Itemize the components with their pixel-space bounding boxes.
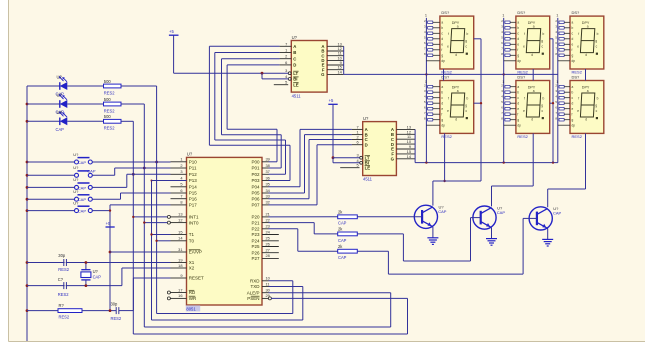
svg-text:13: 13: [178, 212, 182, 217]
svg-text:d: d: [531, 118, 533, 122]
svg-text:e: e: [441, 107, 443, 111]
svg-text:U?: U?: [93, 269, 99, 274]
svg-text:f: f: [572, 113, 573, 117]
svg-text:2: 2: [180, 163, 182, 168]
svg-text:d: d: [455, 53, 457, 57]
svg-text:d: d: [441, 37, 443, 41]
svg-text:a: a: [587, 89, 589, 93]
MCU pin 27 P26: [251, 248, 278, 256]
U2 input pin 1 B: [280, 48, 297, 56]
wire P21 to R 2k 2: [269, 223, 338, 234]
switch S3: [27, 177, 92, 190]
svg-text:U?: U?: [57, 110, 63, 115]
svg-text:f: f: [517, 113, 518, 117]
power +5 (4511 U3 LT/BI): [328, 98, 337, 158]
svg-text:U?: U?: [73, 200, 79, 205]
svg-text:LT: LT: [293, 71, 298, 76]
svg-text:P01: P01: [251, 166, 260, 171]
svg-text:a: a: [572, 21, 574, 25]
svg-text:RES2: RES2: [104, 126, 115, 131]
svg-text:b: b: [441, 91, 443, 95]
display DS6 labels: [572, 74, 583, 139]
svg-text:P06: P06: [251, 196, 260, 201]
wire P17 to +5 rail: [110, 204, 171, 206]
wire R4 to Q1 base: [357, 216, 422, 218]
svg-text:a: a: [517, 85, 519, 89]
U2 output pin 14 G: [321, 69, 344, 77]
MCU U1 8051 body: [187, 157, 263, 305]
svg-text:5: 5: [180, 182, 182, 187]
wire Q3 emitter: [547, 228, 549, 239]
svg-text:f: f: [441, 48, 442, 52]
svg-text:DS?: DS?: [441, 10, 450, 15]
MCU pin 33 P06: [251, 194, 269, 202]
svg-text:e: e: [577, 45, 579, 49]
svg-text:CAP: CAP: [78, 197, 87, 202]
MCU pin 22 P21: [251, 217, 269, 225]
resistor 2k R4: [338, 210, 358, 226]
switch S5: [27, 200, 92, 213]
svg-text:a: a: [572, 85, 574, 89]
svg-text:35: 35: [266, 182, 270, 187]
svg-text:P04: P04: [251, 185, 260, 190]
svg-text:b: b: [597, 32, 599, 36]
resistor 500 R1: [104, 79, 122, 96]
svg-text:DS?: DS?: [572, 74, 581, 79]
svg-text:11: 11: [266, 281, 270, 286]
MCU pin 3 P12: [171, 169, 198, 177]
svg-text:WR: WR: [189, 296, 197, 301]
wire U2 LT-BI tie: [174, 72, 289, 79]
svg-text:U?: U?: [73, 165, 79, 170]
svg-text:P23: P23: [251, 232, 260, 237]
svg-text:9: 9: [180, 273, 182, 278]
ground Q3: [542, 239, 553, 246]
wire P04 to U3 A: [269, 129, 352, 186]
MCU pin 18 X2: [171, 263, 195, 271]
svg-text:RES2: RES2: [104, 90, 115, 95]
svg-text:ALE/P: ALE/P: [247, 290, 260, 295]
display DS1 (7-segment): [440, 16, 474, 69]
LED D3: [27, 110, 104, 132]
wire P00 to U2 D: [227, 65, 280, 162]
svg-text:e: e: [517, 107, 519, 111]
MCU pin 5 P14: [171, 182, 198, 190]
svg-text:5: 5: [285, 80, 287, 85]
display DS1 labels: [441, 10, 452, 75]
svg-text:P21: P21: [251, 220, 260, 225]
svg-text:15: 15: [178, 229, 182, 234]
svg-text:CAP: CAP: [78, 185, 87, 190]
svg-text:P00: P00: [251, 160, 260, 165]
svg-text:P20: P20: [251, 215, 260, 220]
wire loop LED2/INT0 to ALE: [144, 104, 390, 327]
ground Q2: [486, 239, 497, 246]
MCU pin 25 P24: [251, 236, 278, 244]
wire X2 net: [27, 268, 171, 286]
wire reset net mid: [82, 309, 116, 312]
wire DS5 bottom common drop: [532, 133, 534, 186]
svg-text:8: 8: [180, 200, 182, 205]
svg-text:CAP: CAP: [497, 210, 506, 215]
MCU pin 38 P01: [251, 163, 269, 171]
svg-text:12: 12: [178, 217, 182, 222]
svg-text:g: g: [465, 103, 467, 107]
svg-text:b: b: [572, 26, 574, 30]
svg-text:f: f: [578, 32, 579, 36]
svg-text:3: 3: [285, 68, 287, 73]
svg-text:X1: X1: [189, 260, 195, 265]
wire R6 to Q3 base: [357, 218, 537, 274]
wire P02 to U2 B: [215, 53, 286, 175]
svg-text:RESET: RESET: [189, 276, 204, 281]
svg-text:dp: dp: [441, 59, 445, 63]
U3 output pin 11 C: [391, 134, 415, 142]
display DS3 (7-segment): [570, 16, 604, 69]
svg-text:g: g: [572, 54, 574, 58]
svg-text:CAP: CAP: [87, 169, 96, 174]
svg-text:19: 19: [178, 257, 182, 262]
MCU pin 21 P20: [251, 212, 269, 220]
svg-text:5: 5: [357, 163, 359, 168]
crystal Y1: [81, 261, 91, 287]
svg-text:P22: P22: [251, 227, 260, 232]
wire segment bus column 2: [503, 18, 505, 163]
svg-text:U?: U?: [57, 93, 63, 98]
ground Q1: [427, 238, 438, 245]
svg-text:e: e: [523, 109, 525, 113]
svg-text:BI: BI: [293, 77, 297, 82]
capacitor C2 labels: [58, 277, 69, 297]
wire DS2 common chain: [532, 69, 534, 81]
MCU pin 8 P17: [171, 200, 198, 208]
MCU pin 17 RD: [167, 287, 196, 295]
svg-text:DS?: DS?: [517, 74, 526, 79]
svg-text:b: b: [467, 97, 469, 101]
MCU pin 28 P27: [251, 253, 278, 261]
resistor pack RES2 for DS5: [501, 83, 516, 125]
svg-text:P24: P24: [251, 239, 260, 244]
svg-text:4511: 4511: [363, 177, 373, 182]
svg-text:g: g: [441, 54, 443, 58]
svg-text:7: 7: [180, 194, 182, 199]
svg-text:b: b: [517, 91, 519, 95]
resistor pack RES2 for DS3: [555, 19, 570, 61]
wire Q1 collector net: [433, 181, 481, 206]
svg-text:CAP: CAP: [438, 209, 447, 214]
resistor 500 R3: [104, 114, 122, 131]
U2 output pin 15 F: [322, 65, 344, 73]
U3 input pin 1 B: [352, 130, 368, 138]
wire segment rail row2: [415, 161, 558, 163]
svg-text:DS?: DS?: [572, 10, 581, 15]
svg-text:g: g: [517, 118, 519, 122]
svg-text:a: a: [457, 24, 459, 28]
svg-text:b: b: [543, 97, 545, 101]
svg-text:U?: U?: [73, 152, 79, 157]
capacitor C3 labels: [111, 302, 122, 321]
svg-text:g: g: [595, 103, 597, 107]
wire +5 to EA/VP: [109, 251, 171, 254]
U2 output pin 13 A: [321, 41, 343, 49]
U2 output pin 11 C: [321, 51, 343, 59]
wire switch S5 to +5 rail: [92, 209, 111, 211]
svg-text:g: g: [465, 39, 467, 43]
U2 control pin 3 LT: [285, 68, 298, 76]
U3 output pin 14 G: [391, 154, 415, 162]
power +5 (EA/VP pull-up): [106, 205, 115, 311]
svg-text:P14: P14: [189, 185, 198, 190]
svg-text:P11: P11: [189, 166, 197, 171]
MCU pin 24 P23: [251, 229, 278, 237]
MCU pin 30 ALE/P: [247, 288, 271, 296]
svg-text:d: d: [572, 37, 574, 41]
svg-text:6: 6: [180, 188, 182, 193]
svg-text:500: 500: [104, 114, 112, 119]
svg-text:U?: U?: [363, 116, 369, 121]
svg-text:1: 1: [556, 14, 558, 18]
transistor Q1 NPN: [414, 205, 446, 229]
wire P22 to R 2k 3: [269, 229, 338, 251]
svg-text:b: b: [572, 91, 574, 95]
svg-text:RXD: RXD: [250, 279, 260, 284]
svg-text:1: 1: [180, 157, 182, 162]
svg-text:30p: 30p: [58, 253, 66, 258]
wire P07 to U3 D: [269, 145, 352, 205]
U2 output pin 9 E: [322, 60, 344, 68]
wire R5 to Q2 base: [357, 218, 480, 261]
MCU pin 37 P02: [251, 169, 269, 177]
svg-text:1: 1: [425, 14, 427, 18]
switch S2: [27, 165, 96, 177]
svg-text:a: a: [457, 89, 459, 93]
MCU pin 14 T0: [171, 236, 195, 244]
svg-text:U?: U?: [57, 75, 63, 80]
svg-text:dp: dp: [517, 59, 521, 63]
svg-text:500: 500: [104, 79, 112, 84]
switch S1: [27, 152, 92, 165]
label 8051: [186, 305, 200, 311]
U3 input pin 7 A: [352, 124, 368, 132]
svg-text:f: f: [441, 113, 442, 117]
svg-text:e: e: [517, 43, 519, 47]
svg-text:3: 3: [180, 169, 182, 174]
svg-text:26: 26: [266, 241, 270, 246]
resistor pack RES2 for DS1: [424, 19, 440, 61]
svg-text:CAP: CAP: [338, 255, 347, 260]
U2 output pin 12 B: [321, 46, 343, 54]
svg-text:b: b: [441, 26, 443, 30]
svg-text:f: f: [517, 48, 518, 52]
wire DS1 common chain: [443, 69, 445, 81]
MCU pin 29 PSEN: [247, 293, 271, 301]
svg-text:f: f: [524, 97, 525, 101]
MCU pin 2 P11: [171, 163, 197, 171]
svg-text:a: a: [587, 24, 589, 28]
svg-text:RD: RD: [189, 290, 196, 295]
wire switch S3 to MCU: [92, 174, 170, 187]
svg-text:TXD: TXD: [251, 284, 261, 289]
svg-text:a: a: [441, 85, 443, 89]
wire switch S4 to MCU: [92, 193, 170, 199]
svg-text:INT0: INT0: [189, 220, 199, 225]
svg-text:+5: +5: [169, 29, 174, 34]
wire T0 tap: [155, 240, 170, 242]
svg-text:g: g: [441, 118, 443, 122]
LED D1: [27, 75, 104, 97]
svg-text:1: 1: [502, 14, 504, 18]
MCU pin 16 WR: [167, 293, 197, 301]
wire segment bus column 3: [557, 18, 559, 163]
U3 output pin 10 D: [391, 139, 415, 147]
svg-text:39: 39: [266, 157, 270, 162]
resistor 2k R5: [338, 227, 358, 243]
U3 output pin 15 F: [391, 149, 415, 157]
svg-text:7: 7: [285, 41, 287, 46]
wire DS6 bottom common drop: [585, 133, 587, 189]
wire U2 output bus: [343, 46, 345, 74]
U2 control pin 4 BI: [285, 74, 298, 82]
svg-text:a: a: [533, 24, 535, 28]
svg-text:T1: T1: [189, 232, 195, 237]
svg-text:U?: U?: [187, 152, 193, 157]
svg-text:CAP: CAP: [78, 209, 87, 214]
svg-text:D: D: [365, 142, 368, 147]
U2 control pin 5 LE: [285, 80, 299, 88]
svg-text:28: 28: [266, 253, 270, 258]
display DS4 labels: [441, 74, 452, 139]
svg-text:RES2: RES2: [572, 134, 583, 139]
svg-text:P17: P17: [189, 203, 198, 208]
svg-text:CAP: CAP: [553, 211, 562, 216]
MCU pin 34 P05: [251, 188, 270, 196]
display DS5 labels: [517, 74, 528, 139]
svg-text:b: b: [597, 97, 599, 101]
svg-text:4511: 4511: [292, 93, 302, 98]
U3 pin 5 LE stub wire: [340, 167, 359, 169]
svg-text:P15: P15: [189, 191, 198, 196]
svg-text:+5: +5: [329, 98, 334, 103]
svg-text:CAP: CAP: [56, 127, 65, 132]
resistor R7 reset: [58, 303, 82, 319]
svg-text:RES2: RES2: [104, 108, 115, 113]
wire X1 net: [27, 262, 171, 264]
svg-text:P27: P27: [251, 256, 260, 261]
svg-text:f: f: [578, 97, 579, 101]
display DS5 (7-segment): [516, 81, 550, 134]
display DS4 (7-segment): [440, 81, 474, 134]
svg-text:PSEN: PSEN: [247, 296, 259, 301]
svg-text:R?: R?: [59, 303, 65, 308]
wire loop LED1/T0 to RXD: [157, 86, 293, 314]
wire P03 to U2 A: [209, 46, 290, 180]
wire switch S1 to MCU P10: [92, 161, 170, 163]
MCU pin 4 P13: [171, 175, 198, 183]
wire DS1/DS4 right common to Q1: [474, 39, 482, 181]
svg-text:e: e: [441, 43, 443, 47]
svg-text:d: d: [572, 102, 574, 106]
svg-text:a: a: [517, 21, 519, 25]
svg-text:D: D: [293, 63, 296, 68]
svg-text:d: d: [455, 118, 457, 122]
svg-text:e: e: [577, 109, 579, 113]
wire LED D3 to P12 row: [121, 121, 135, 175]
MCU pin 12 INT0: [167, 217, 199, 225]
svg-text:P16: P16: [189, 196, 198, 201]
svg-text:INT1: INT1: [189, 215, 199, 220]
power +5 (top, to 4511 U2 LT/BI): [169, 29, 179, 73]
MCU pin 31 EA/VP: [171, 247, 203, 255]
resistor pack RES2 for DS2: [501, 19, 516, 61]
svg-text:d: d: [517, 37, 519, 41]
svg-text:g: g: [541, 39, 543, 43]
svg-text:d: d: [585, 53, 587, 57]
svg-text:e: e: [447, 109, 449, 113]
svg-text:CAP: CAP: [338, 238, 347, 243]
U3 control pin 4 BI: [357, 158, 370, 166]
svg-text:T0: T0: [189, 239, 195, 244]
svg-text:B: B: [293, 50, 296, 55]
svg-text:f: f: [524, 32, 525, 36]
svg-text:b: b: [517, 26, 519, 30]
svg-text:e: e: [572, 43, 574, 47]
wire DS2/DS5 right common: [550, 39, 555, 163]
resistor pack RES2 for DS6: [555, 83, 570, 125]
svg-text:32: 32: [266, 200, 270, 205]
wire P05 to U3 B: [269, 135, 352, 193]
wire reset to RESET pin: [119, 278, 171, 311]
svg-text:DS?: DS?: [517, 10, 526, 15]
svg-text:a: a: [441, 21, 443, 25]
wire reset net left: [27, 310, 58, 312]
svg-text:U?: U?: [73, 189, 79, 194]
svg-text:dp: dp: [572, 124, 576, 128]
MCU pin 36 P03: [251, 175, 269, 183]
svg-text:g: g: [541, 103, 543, 107]
svg-text:18: 18: [178, 263, 182, 268]
wire P01 to U2 C: [222, 59, 282, 168]
svg-text:d: d: [517, 102, 519, 106]
svg-text:RES2: RES2: [441, 134, 452, 139]
MCU pin 35 P04: [251, 182, 269, 190]
capacitor C1 labels: [58, 253, 69, 272]
svg-text:b: b: [467, 32, 469, 36]
wire Q1 emitter: [432, 227, 434, 238]
wire Q3 collector net: [548, 189, 586, 207]
wire segment bus column 1: [425, 18, 427, 163]
wire P13 stub link: [152, 180, 187, 182]
svg-text:U?: U?: [73, 177, 79, 182]
display DS3 labels: [572, 10, 583, 75]
wire P06 to U3 C: [269, 140, 352, 199]
U3 input pin 6 D: [352, 140, 368, 148]
wire U3 output bus: [414, 129, 416, 162]
svg-text:CAP: CAP: [78, 160, 87, 165]
svg-text:EA/VP: EA/VP: [189, 250, 202, 255]
svg-text:DS?: DS?: [441, 74, 450, 79]
wire Q2 collector net: [492, 186, 534, 206]
display DS6 (7-segment): [570, 81, 604, 134]
U3 output pin 9 E: [391, 144, 415, 152]
svg-text:16: 16: [178, 293, 182, 298]
svg-text:P05: P05: [251, 191, 260, 196]
wire U3 LT-BI tie: [332, 156, 360, 163]
svg-text:P12: P12: [189, 172, 198, 177]
junction dots on left rail: [26, 103, 29, 312]
svg-text:g: g: [517, 54, 519, 58]
svg-text:P03: P03: [251, 178, 260, 183]
svg-text:17: 17: [178, 287, 182, 292]
